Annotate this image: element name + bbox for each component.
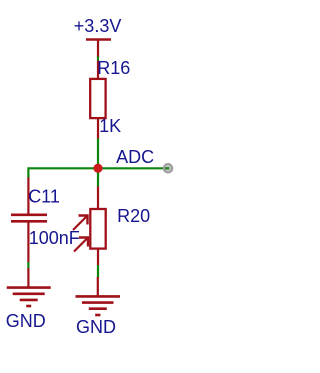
pin: C11 top: [27, 177, 29, 215]
svg-text:GND: GND: [76, 317, 116, 337]
ground symbol right: [76, 277, 121, 315]
wire: horizontal node bus: [28, 167, 164, 169]
photoresistor R20: [90, 209, 105, 249]
junction node: [93, 164, 102, 173]
svg-text:GND: GND: [6, 311, 46, 331]
resistor R16: [90, 79, 105, 118]
svg-text:C11: C11: [28, 186, 60, 206]
wire: node down-left to C11: [27, 167, 29, 177]
svg-text:+3.3V: +3.3V: [74, 16, 122, 36]
pin: R20 bottom: [97, 249, 99, 266]
pin: R20 top: [97, 187, 99, 210]
ground symbol left: [7, 268, 51, 306]
svg-text:100nF: 100nF: [29, 228, 80, 248]
capacitor C11: [11, 215, 47, 222]
wire: C11 to GND: [27, 262, 29, 269]
svg-text:R20: R20: [117, 206, 150, 226]
pin: R16 top: [97, 61, 99, 80]
terminal pin ADC: [164, 164, 173, 173]
svg-text:ADC: ADC: [116, 147, 154, 167]
svg-text:1K: 1K: [99, 116, 121, 136]
wire: power to R16: [97, 57, 99, 62]
pin: R16 bottom: [97, 118, 99, 139]
wire: R20 to GND: [97, 265, 99, 277]
power +3.3V symbol: [86, 40, 111, 58]
pin: C11 bottom: [27, 221, 29, 262]
photoresistor arrow lower: [74, 238, 88, 252]
wire: node to R20: [97, 168, 99, 187]
photoresistor arrow upper: [73, 216, 88, 231]
wire: R16 to node: [97, 139, 99, 169]
svg-text:R16: R16: [97, 58, 130, 78]
